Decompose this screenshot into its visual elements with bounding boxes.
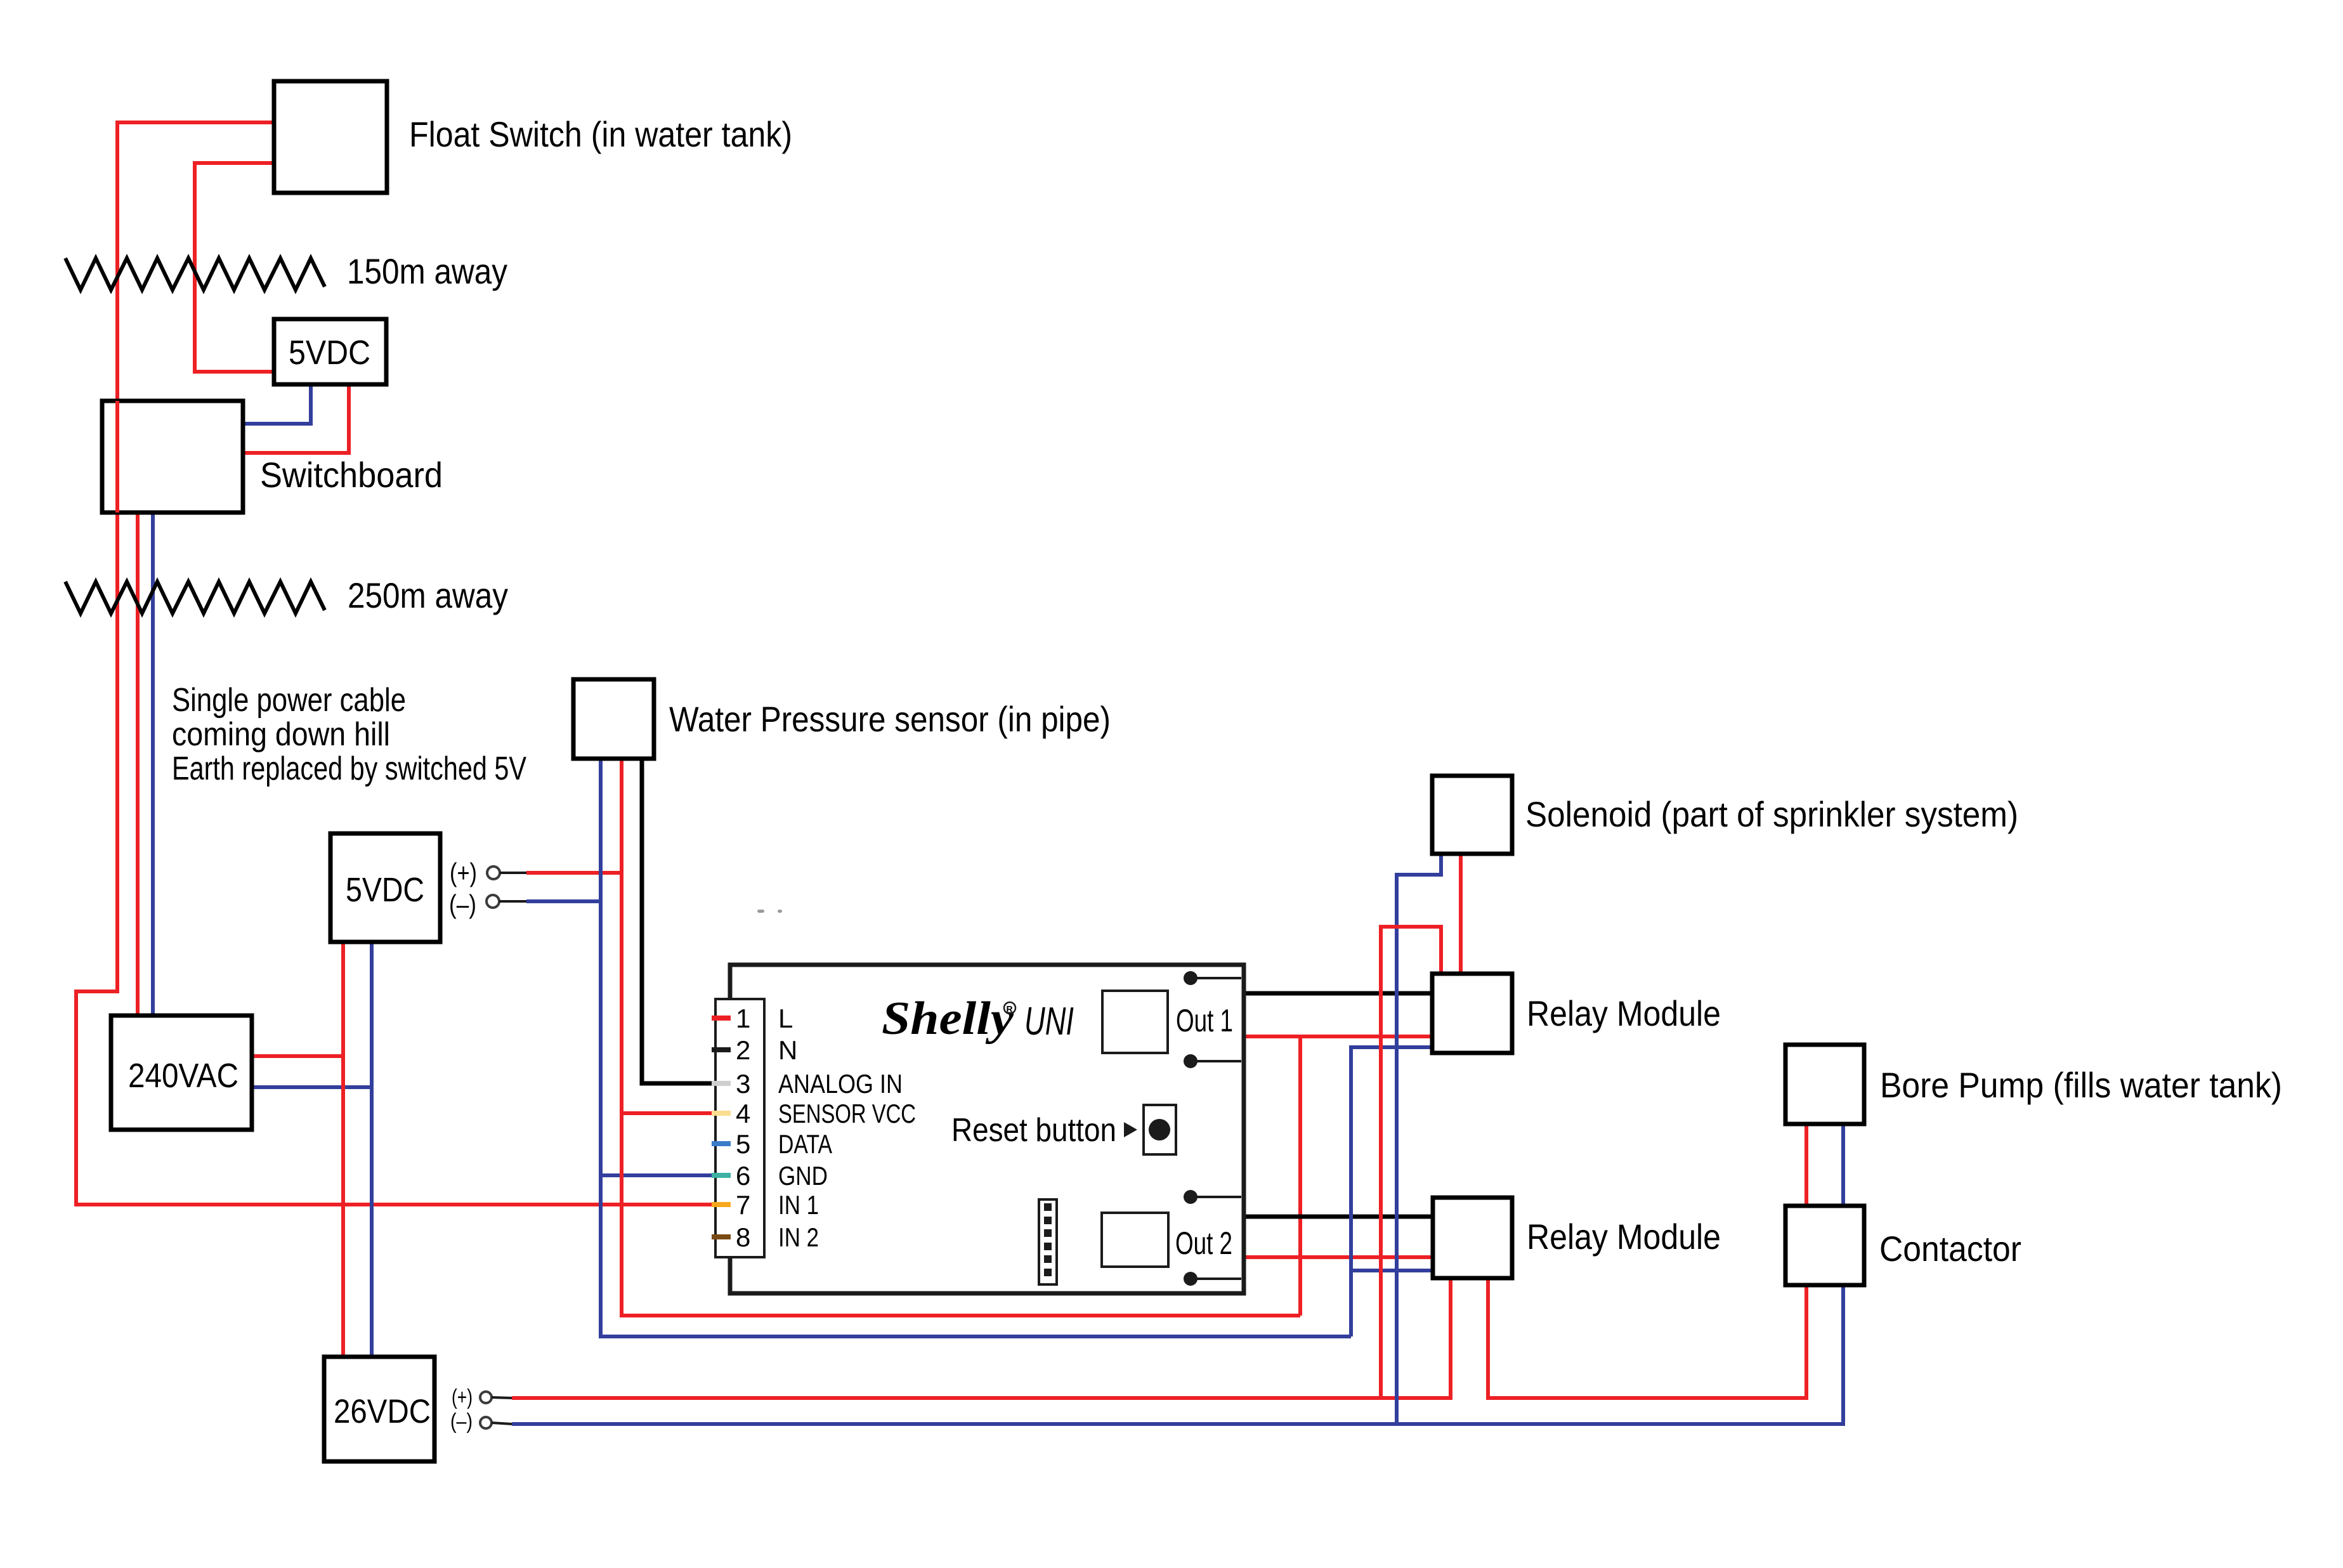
wire Out 1 to relay module 1 (red) (1243, 1035, 1432, 1038)
svg-text:6: 6 (736, 1161, 750, 1191)
Out 2 terminal dot lower (1184, 1272, 1198, 1286)
wire Out1-red branch down to sensor VCC rail (red vertical) (1298, 1036, 1302, 1316)
pin 7 dash (orange) (712, 1202, 731, 1207)
Shelly UNI module outline (730, 965, 1244, 1293)
svg-text:150m away: 150m away (347, 251, 507, 291)
wire solenoid plus to relay module 1 (red) (1459, 854, 1463, 974)
svg-text:IN 2: IN 2 (778, 1222, 819, 1252)
wire 5VDC supply 1 minus to switchboard (blue) (243, 384, 311, 424)
terminal circle 26VDC minus (480, 1417, 492, 1428)
pin 2 dash (black) (712, 1047, 731, 1052)
svg-text:250m away: 250m away (348, 575, 508, 615)
svg-text:(–): (–) (450, 1409, 473, 1434)
svg-text:Solenoid (part of sprinkler sy: Solenoid (part of sprinkler system) (1525, 794, 2018, 834)
svg-text:SENSOR VCC: SENSOR VCC (778, 1099, 916, 1128)
wire 26VDC minus rail (blue, to contactor) (512, 1285, 1843, 1424)
wire relay module 2 output to contactor (red) (1488, 1278, 1806, 1398)
svg-text:L: L (778, 1003, 793, 1033)
wire sensor VCC rail to pin 4 SENSOR VCC (red) (622, 1111, 715, 1115)
svg-text:8: 8 (736, 1222, 750, 1252)
svg-text:N: N (778, 1035, 797, 1065)
stray mark dots (757, 910, 764, 913)
terminal circle 5VDC plus (487, 866, 500, 879)
svg-text:5VDC: 5VDC (346, 871, 424, 909)
wire 5VDC plus terminal to sensor VCC rail (red) (526, 871, 622, 875)
wire float switch upper terminal to IN 1 (red, long run down hill) (76, 122, 715, 1205)
svg-text:Out 2: Out 2 (1175, 1225, 1232, 1261)
svg-text:Earth replaced by switched 5V: Earth replaced by switched 5V (172, 750, 526, 787)
terminal circle 26VDC plus (480, 1392, 492, 1403)
wire Out 2 to relay module 2 (black) (1243, 1215, 1433, 1219)
svg-text:(+): (+) (452, 1385, 473, 1409)
switchboard box (102, 401, 243, 513)
svg-text:R: R (1007, 1004, 1013, 1014)
wire 5VDC minus terminal to sensor GND rail (blue) (526, 899, 601, 903)
relay module 2 box (1433, 1198, 1512, 1278)
wire water pressure sensor signal to pin 3 ANALOG IN (black) (642, 759, 715, 1083)
wire solenoid minus to 26VDC minus rail (blue) (1397, 854, 1441, 1424)
wire float-switch line passing over switchboard (red) (115, 401, 119, 513)
svg-text:240VAC: 240VAC (128, 1057, 238, 1095)
wire water pressure sensor VCC rail (red vertical + under-module run) (622, 759, 1300, 1316)
wire 240VAC to 5VDC supply 2 (red) (252, 1054, 343, 1058)
svg-text:Contactor: Contactor (1879, 1229, 2021, 1269)
Out 2 terminal dot upper (1184, 1190, 1198, 1204)
wire 26VDC plus feed to relay module 1 (red vertical x2177) (1381, 927, 1441, 1398)
wire sensor GND rail to pin 6 GND (blue) (601, 1173, 715, 1177)
pin strip box (715, 999, 764, 1257)
svg-text:Out 1: Out 1 (1176, 1003, 1233, 1038)
wire 5VDC supply 1 plus to switchboard (red) (243, 384, 349, 453)
wire float switch lower terminal to 5VDC supply 1 (red) (195, 163, 274, 372)
pin 8 dash (brown) (712, 1234, 731, 1239)
wire switchboard to 240VAC neutral (blue) (151, 513, 155, 1016)
wire Out 2 to relay module 2 (red) (1243, 1255, 1433, 1259)
wire water pressure sensor GND rail (blue vertical + under-module run) (601, 759, 1351, 1336)
resistor-style cable squiggle "150m away" (65, 258, 325, 290)
svg-text:GND: GND (778, 1161, 828, 1191)
26VDC supply box (324, 1357, 434, 1461)
header connector (1039, 1199, 1057, 1284)
Out 1 terminal dot upper (1184, 971, 1198, 985)
svg-text:Relay Module: Relay Module (1527, 1217, 1721, 1257)
svg-text:Relay Module: Relay Module (1527, 993, 1721, 1033)
wire bore pump to contactor (red) (1805, 1124, 1808, 1206)
svg-text:7: 7 (736, 1190, 750, 1220)
svg-text:Switchboard: Switchboard (260, 455, 443, 495)
wire 240VAC to 5VDC supply 2 (blue) (252, 1085, 372, 1089)
resistor-style cable squiggle "250m away" (65, 582, 325, 613)
wire 26VDC plus to relay module 2 (red) (512, 1278, 1451, 1398)
wire relay module 2 blue feed (blue) (1351, 1269, 1433, 1272)
svg-text:26VDC: 26VDC (334, 1393, 431, 1430)
svg-text:2: 2 (736, 1035, 750, 1065)
240VAC box (111, 1016, 252, 1130)
svg-text:Single power cable: Single power cable (172, 682, 406, 719)
svg-text:(+): (+) (450, 858, 477, 887)
svg-text:5: 5 (736, 1129, 750, 1159)
pin 3 dash (gray) (712, 1081, 731, 1086)
terminal circle 5VDC minus (486, 895, 499, 908)
Shelly logo registered mark (1004, 1002, 1015, 1014)
svg-text:3: 3 (736, 1069, 750, 1099)
svg-text:Float Switch (in water tank): Float Switch (in water tank) (409, 114, 792, 154)
pin 6 dash (teal) (712, 1173, 731, 1178)
wire switchboard to 240VAC active (red) (136, 513, 140, 1016)
wire 5VDC supply 2 down to 26VDC supply (blue) (370, 942, 374, 1357)
svg-text:Reset button: Reset button (951, 1112, 1116, 1149)
wire relay module 1 blue return (blue vertical x2130) (1351, 1047, 1432, 1336)
svg-text:1: 1 (736, 1003, 750, 1033)
water pressure sensor box (573, 679, 654, 759)
bore pump box (1785, 1045, 1864, 1124)
reset button pointer triangle (1124, 1122, 1137, 1137)
5VDC supply 1 box (274, 319, 386, 384)
float switch box (274, 81, 387, 193)
reset button circle (1149, 1119, 1170, 1140)
solenoid box (1432, 776, 1512, 854)
pin 1 dash (red) (712, 1016, 731, 1021)
svg-text:Water Pressure sensor (in pipe: Water Pressure sensor (in pipe) (669, 699, 1111, 739)
Out 2 internal switch box (1102, 1213, 1168, 1267)
relay module 1 box (1432, 974, 1512, 1053)
wire 5VDC supply 2 down to 26VDC supply (red) (341, 942, 345, 1357)
reset button rectangle (1144, 1105, 1176, 1154)
svg-text:4: 4 (736, 1099, 750, 1128)
svg-text:IN 1: IN 1 (778, 1190, 819, 1220)
pin 5 dash (light blue) (712, 1141, 731, 1146)
5VDC supply 2 box (330, 833, 440, 942)
pin 4 dash (pale yellow) (712, 1111, 731, 1116)
svg-text:DATA: DATA (778, 1129, 832, 1159)
wire bore pump to contactor (blue) (1841, 1124, 1845, 1206)
svg-text:(–): (–) (449, 889, 476, 919)
wire Out 1 to relay module 1 (black) (1243, 991, 1432, 996)
svg-text:ANALOG IN: ANALOG IN (778, 1069, 903, 1099)
svg-text:coming down hill: coming down hill (172, 716, 390, 753)
contactor box (1785, 1206, 1864, 1285)
Out 1 internal switch box (1102, 991, 1168, 1053)
Out 1 terminal dot lower (1184, 1054, 1198, 1068)
svg-text:5VDC: 5VDC (289, 334, 370, 372)
svg-text:Bore Pump (fills water tank): Bore Pump (fills water tank) (1880, 1065, 2282, 1105)
svg-text:Shelly: Shelly (882, 993, 1014, 1045)
svg-text:UNI: UNI (1024, 1000, 1074, 1043)
